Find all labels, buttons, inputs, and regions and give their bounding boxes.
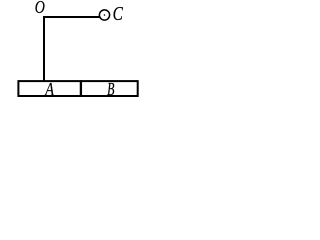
wire: horizontal rod from node O to circle C <box>43 16 99 18</box>
svg-text:B: B <box>107 80 114 100</box>
svg-text:C: C <box>113 2 124 25</box>
svg-text:O: O <box>35 0 46 18</box>
svg-text:A: A <box>44 79 55 100</box>
box A <box>18 81 137 96</box>
wire: vertical rod from node O down to block A <box>43 16 45 81</box>
divider between box A and box B <box>80 80 82 97</box>
terminal C (circle with center dot) <box>99 10 109 20</box>
